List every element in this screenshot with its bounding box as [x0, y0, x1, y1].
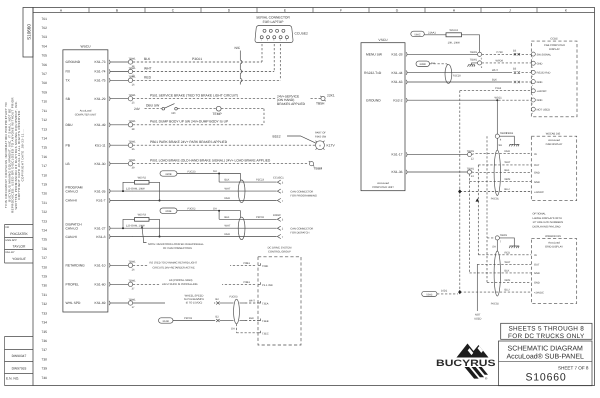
svg-text:726: 726	[41, 247, 47, 251]
svg-text:711: 711	[42, 109, 47, 113]
svg-text:DISPLAY: DISPLAY	[549, 48, 560, 51]
svg-text:RS232-TxD: RS232-TxD	[364, 71, 382, 75]
svg-text:712: 712	[41, 118, 47, 122]
svg-text:P3C01: P3C01	[192, 57, 202, 61]
svg-text:GND: GND	[534, 282, 540, 285]
grid display terminal TBW1 pin 7	[487, 136, 519, 251]
svg-text:708: 708	[41, 81, 47, 85]
svg-text:YOUSUF: YOUSUF	[12, 257, 26, 261]
wire BLU grid 24V with 16D1 feed	[422, 289, 532, 297]
svg-text:TBW1: TBW1	[128, 141, 136, 144]
svg-text:2: 2	[267, 39, 268, 42]
svg-text:737: 737	[41, 348, 47, 352]
svg-text:FOR DC TRUCKS ONLY: FOR DC TRUCKS ONLY	[508, 333, 585, 340]
row numbers 701-740	[41, 17, 47, 380]
svg-text:P738: P738	[497, 51, 504, 54]
svg-text:DISPLAYING PAYLOAD: DISPLAYING PAYLOAD	[533, 225, 561, 228]
wire PB park brake	[133, 140, 315, 145]
svg-text:728: 728	[41, 265, 47, 269]
svg-text:2: 2	[532, 57, 533, 60]
DC drive system control group	[258, 247, 301, 345]
svg-text:SH: SH	[431, 62, 435, 65]
note resistors	[141, 226, 204, 251]
svg-text:RED: RED	[505, 251, 511, 254]
connector CCUSC1	[273, 177, 317, 203]
document number boxes bottom left	[5, 337, 34, 386]
wire GRN grid GND	[487, 240, 531, 282]
svg-text:739: 739	[41, 367, 47, 371]
svg-text:NOTE: RESISTORS LOCATED IN BAC: NOTE: RESISTORS LOCATED IN BACKSHELL	[148, 243, 204, 246]
svg-text:P2C23: P2C23	[256, 179, 264, 182]
cable shield P6C01	[491, 150, 501, 200]
svg-text:KS1-28: KS1-28	[392, 53, 403, 57]
wire SH drain to T3EC	[231, 324, 258, 333]
svg-text:710: 710	[41, 100, 47, 104]
svg-text:TBW1: TBW1	[467, 168, 475, 171]
svg-text:2: 2	[532, 66, 533, 69]
svg-text:KS1-44: KS1-44	[392, 71, 403, 75]
Bucyrus logo	[436, 344, 496, 381]
svg-text:WHT: WHT	[505, 161, 511, 164]
svg-text:GND: GND	[537, 99, 543, 102]
cable shield CAN1	[238, 180, 245, 203]
wire BLU cab 24V	[458, 91, 531, 293]
svg-text:5: 5	[286, 39, 287, 42]
svg-text:COMPUTER UNIT: COMPUTER UNIT	[372, 186, 394, 189]
svg-text:56 PULSES/MPH: 56 PULSES/MPH	[184, 298, 204, 301]
serial connector CCUSE2	[255, 16, 308, 43]
svg-text:USED: USED	[474, 317, 481, 320]
svg-text:G: G	[396, 8, 399, 12]
svg-text:OUT: OUT	[534, 164, 540, 167]
svg-text:TBW1: TBW1	[467, 150, 475, 153]
svg-text:KS1-27: KS1-27	[95, 227, 106, 231]
resistor WS-R2 120 OHM	[122, 176, 161, 201]
svg-text:PROPEL: PROPEL	[66, 283, 80, 287]
cable shield P6C02	[491, 251, 501, 306]
wire RED CAN2 HI	[133, 233, 277, 237]
svg-text:720: 720	[41, 192, 47, 196]
svg-text:736: 736	[41, 339, 47, 343]
svg-text:(0 TO 15VDC): (0 TO 15VDC)	[186, 302, 203, 305]
svg-text:WS-R2: WS-R2	[138, 176, 147, 179]
CCBS cab computer display	[531, 38, 577, 117]
svg-text:738: 738	[41, 357, 47, 361]
svg-text:KS1-17: KS1-17	[392, 153, 403, 157]
svg-text:B2: B2	[216, 315, 220, 318]
resistor WS-R4 10K pullup	[446, 29, 480, 53]
svg-text:VSCU: VSCU	[378, 38, 388, 42]
svg-text:P601 DUMP BODY UP SW 24V+DUM: P601 DUMP BODY UP SW 24V+DUMP BODY IS UP	[150, 120, 229, 124]
svg-text:TBW1: TBW1	[506, 132, 514, 135]
svg-text:GRN: GRN	[505, 279, 511, 282]
svg-text:TBW1: TBW1	[128, 76, 136, 79]
svg-text:2: 2	[532, 75, 533, 78]
CCBS pins	[531, 52, 551, 115]
wire GROUND WD21	[407, 97, 531, 102]
svg-text:GRN: GRN	[505, 178, 511, 181]
svg-text:DBU SW: DBU SW	[146, 103, 160, 107]
svg-text:WHT: WHT	[249, 300, 255, 303]
wire label oval 620B	[160, 170, 241, 182]
svg-text:RED: RED	[225, 197, 231, 200]
svg-text:TBW1: TBW1	[470, 51, 478, 54]
wire 24VDC PJA2	[460, 87, 531, 91]
svg-text:SW SIGNAL: SW SIGNAL	[537, 53, 552, 56]
WSCU AccuLoad computer unit U1	[63, 45, 108, 313]
svg-text:BLK: BLK	[225, 216, 230, 219]
svg-text:BLK: BLK	[225, 179, 230, 182]
svg-text:T3EC: T3EC	[262, 333, 269, 336]
wire BLK RX line	[133, 44, 262, 62]
svg-text:CAN-HI: CAN-HI	[66, 199, 77, 203]
svg-text:CAN-LO: CAN-LO	[66, 190, 79, 194]
svg-text:TBW1: TBW1	[470, 59, 478, 62]
wire wheel speed WHT	[133, 293, 258, 305]
svg-text:10" HIGH LCD NUMBERS: 10" HIGH LCD NUMBERS	[533, 221, 564, 224]
wire label oval 612B	[159, 315, 259, 323]
WSCU pin labels	[66, 60, 106, 305]
VSCU AccuLoad computer unit U2	[361, 38, 405, 191]
svg-text:731: 731	[41, 293, 47, 297]
svg-text:P6C02: P6C02	[491, 303, 499, 306]
svg-text:639D: 639D	[420, 63, 426, 66]
svg-text:BLK: BLK	[249, 317, 254, 320]
svg-text:WHT: WHT	[144, 67, 152, 71]
svg-text:T3EB: T3EB	[262, 320, 269, 323]
svg-text:BLK: BLK	[144, 57, 151, 61]
wire SB service brake	[133, 94, 335, 107]
svg-text:FOR DISPATCH: FOR DISPATCH	[290, 231, 309, 234]
svg-text:RETARDING: RETARDING	[66, 264, 86, 268]
svg-text:KS1-73: KS1-73	[95, 60, 106, 64]
svg-text:SCHEMATIC DIAGRAM: SCHEMATIC DIAGRAM	[508, 346, 583, 353]
svg-text:WHL SPD: WHL SPD	[66, 301, 82, 305]
svg-text:725: 725	[41, 238, 47, 242]
svg-text:705: 705	[41, 54, 47, 58]
svg-text:RX: RX	[66, 70, 71, 74]
svg-text:21AA1: 21AA1	[428, 31, 436, 34]
svg-text:24V: 24V	[134, 107, 141, 111]
svg-text:TBW1: TBW1	[128, 159, 136, 162]
wire RED grid IN	[478, 251, 531, 255]
svg-text:CAN CONNECTOR: CAN CONNECTOR	[290, 190, 313, 193]
svg-text:GND: GND	[534, 181, 540, 184]
svg-text:730: 730	[41, 284, 47, 288]
wire BLK shield CAN1	[219, 179, 277, 183]
svg-text:KS2-2: KS2-2	[393, 98, 402, 102]
svg-text:2: 2	[532, 84, 533, 87]
TBW1 terminal circles	[128, 57, 136, 309]
svg-text:ENG APP: ENG APP	[6, 239, 18, 242]
svg-text:BLK: BLK	[505, 269, 510, 272]
svg-text:P8B1: P8B1	[244, 262, 251, 265]
svg-text:P2C03: P2C03	[230, 296, 238, 299]
svg-text:120 OHM, 1/4W: 120 OHM, 1/4W	[126, 187, 145, 190]
svg-text:AS (PROPEL SIGN): AS (PROPEL SIGN)	[169, 279, 193, 282]
svg-text:DC DRIVE SYSTEM: DC DRIVE SYSTEM	[268, 247, 292, 250]
svg-text:E.N. NO.: E.N. NO.	[6, 377, 19, 381]
svg-text:P801 LOAD BRAKE (OLD HAND BRA: P801 LOAD BRAKE (OLD HAND BRAKE SIGNAL) …	[150, 158, 271, 162]
wire WHT grid OUT to not used	[474, 198, 531, 320]
svg-text:10K, 1/4W: 10K, 1/4W	[448, 41, 461, 44]
svg-text:CCUSE2: CCUSE2	[295, 32, 309, 36]
WSCAB AccuLoad cab display	[506, 132, 577, 201]
svg-text:WSGRID DIS: WSGRID DIS	[545, 235, 561, 238]
svg-text:RS232-RxD: RS232-RxD	[537, 72, 551, 75]
svg-text:727: 727	[41, 256, 47, 260]
svg-text:KS1-30: KS1-30	[95, 162, 106, 166]
resistor WS-R3 120 OHM	[122, 213, 161, 237]
cable shield wheel speed	[234, 299, 240, 324]
svg-text:1: 1	[261, 39, 262, 42]
svg-text:N/C: N/C	[235, 46, 241, 50]
wire WHT CAN2 LO	[133, 225, 277, 229]
svg-text:2: 2	[532, 112, 533, 115]
svg-text:TBW1: TBW1	[128, 120, 136, 123]
column letters	[60, 8, 568, 13]
svg-text:RED: RED	[505, 150, 511, 153]
svg-text:BLU: BLU	[505, 289, 510, 292]
wire WHT CAN1 LO	[133, 188, 277, 192]
svg-text:22K1: 22K1	[327, 94, 335, 98]
node B1E2	[273, 134, 317, 143]
svg-text:TBW1: TBW1	[128, 261, 136, 264]
S10660 margin box	[23, 8, 33, 58]
svg-text:707: 707	[41, 72, 47, 76]
svg-text:CAN-HI: CAN-HI	[66, 235, 77, 239]
wire WHT cab OUT	[478, 161, 531, 255]
svg-text:713: 713	[41, 127, 47, 131]
svg-text:A: A	[319, 145, 321, 148]
svg-text:WHT: WHT	[225, 188, 231, 191]
svg-text:716: 716	[41, 155, 47, 159]
wire DBU dump body up	[133, 120, 264, 125]
svg-text:S10660: S10660	[27, 24, 32, 40]
svg-text:PJA2: PJA2	[495, 87, 502, 90]
svg-text:719: 719	[41, 183, 47, 187]
wire KS1-36	[407, 168, 531, 178]
svg-text:WHT: WHT	[505, 261, 511, 264]
svg-text:B3: B3	[513, 49, 517, 52]
svg-text:TBW1: TBW1	[128, 298, 136, 301]
svg-text:CCBS: CCBS	[550, 38, 557, 41]
svg-text:CAB DISPLAY: CAB DISPLAY	[546, 143, 563, 146]
svg-text:733: 733	[41, 311, 47, 315]
svg-text:718: 718	[41, 173, 47, 177]
svg-text:702: 702	[41, 26, 47, 30]
svg-text:WHT: WHT	[225, 225, 231, 228]
svg-text:AccuLoad: AccuLoad	[548, 241, 560, 244]
svg-text:REL BY: REL BY	[6, 251, 15, 254]
svg-text:GND: GND	[537, 81, 543, 84]
svg-text:BLK: BLK	[492, 79, 497, 82]
N/C stub	[235, 46, 243, 85]
wire GRN cab GND	[470, 174, 532, 182]
svg-text:DISSC: DISSC	[273, 214, 281, 217]
wire MENU SW to display	[407, 49, 531, 60]
svg-text:+24VDC: +24VDC	[534, 291, 544, 294]
svg-text:55A3: 55A3	[426, 293, 433, 296]
svg-text:KS1-60: KS1-60	[95, 283, 106, 287]
svg-text:WHEEL SPEED: WHEEL SPEED	[185, 294, 204, 297]
svg-text:SH: SH	[231, 328, 235, 331]
svg-text:BRAKES APPLIED: BRAKES APPLIED	[277, 102, 306, 106]
svg-text:P1-1 IND: P1-1 IND	[262, 284, 273, 287]
svg-text:735: 735	[41, 330, 47, 334]
wire label oval 603E	[160, 207, 241, 219]
svg-text:722: 722	[41, 210, 47, 214]
svg-text:KS1-75: KS1-75	[95, 79, 106, 83]
svg-text:703: 703	[41, 35, 47, 39]
svg-text:OUT: OUT	[534, 264, 540, 267]
svg-text:GND: GND	[534, 272, 540, 275]
svg-text:AccuLoad® SUB-PANEL: AccuLoad® SUB-PANEL	[506, 353, 584, 361]
svg-text:CAB COMPUTER: CAB COMPUTER	[544, 44, 565, 47]
svg-text:COPYRIGHT DATE .08-22-11....: COPYRIGHT DATE .08-22-11....	[21, 129, 25, 182]
svg-text:+24VDC: +24VDC	[537, 90, 547, 93]
connector DISSC	[273, 214, 313, 239]
svg-text:24V+TRUCK IS PROPELLING: 24V+TRUCK IS PROPELLING	[162, 283, 198, 286]
24V DBU switch S1	[134, 103, 216, 115]
svg-text:GROUND: GROUND	[366, 98, 381, 102]
svg-text:P3C02: P3C02	[188, 208, 196, 211]
svg-text:B3: B3	[513, 68, 517, 71]
svg-text:612B: 612B	[163, 320, 169, 323]
svg-text:KS1-8: KS1-8	[96, 235, 105, 239]
wire RS retarding	[133, 260, 257, 270]
svg-text:GROUND: GROUND	[66, 60, 81, 64]
svg-text:F: F	[340, 8, 342, 12]
svg-text:729: 729	[41, 275, 47, 279]
svg-text:TBW1: TBW1	[128, 280, 136, 283]
wire AS propel	[133, 277, 257, 286]
svg-text:706: 706	[41, 63, 47, 67]
svg-text:CCUSC1: CCUSC1	[273, 177, 284, 180]
WSCU pin arcs and stubs	[109, 60, 133, 305]
cable shield CAN2	[238, 217, 245, 240]
svg-text:CONTROL GROUP: CONTROL GROUP	[268, 251, 291, 254]
wire BLK grid GND	[470, 182, 532, 273]
svg-text:620B: 620B	[165, 173, 171, 176]
svg-text:732: 732	[41, 302, 47, 306]
svg-text:KS1-74: KS1-74	[95, 70, 106, 74]
wire LB load brake	[133, 158, 323, 170]
svg-text:WS-R4: WS-R4	[450, 29, 459, 32]
svg-text:WS-R3: WS-R3	[138, 213, 147, 216]
svg-text:OF CAN CONNECTORS: OF CAN CONNECTORS	[163, 247, 192, 250]
svg-text:P2C23: P2C23	[188, 170, 196, 173]
svg-text:AccuLoad: AccuLoad	[548, 139, 560, 142]
svg-text:DW97933: DW97933	[12, 366, 27, 370]
svg-text:DR: DR	[6, 226, 10, 229]
VSCU pin arcs	[406, 52, 407, 174]
svg-text:3: 3	[273, 39, 274, 42]
svg-text:P3K0 SW: P3K0 SW	[315, 135, 327, 138]
svg-text:704: 704	[41, 44, 47, 48]
svg-text:603E: 603E	[165, 210, 171, 213]
svg-text:TBW1: TBW1	[128, 94, 136, 97]
svg-text:OPTIONAL: OPTIONAL	[533, 213, 547, 216]
svg-text:SH: SH	[499, 144, 503, 147]
disclaimer rotated text	[4, 97, 25, 213]
svg-text:TBW1: TBW1	[128, 67, 136, 70]
cab display terminal TBW1 pin 4	[495, 100, 519, 150]
svg-text:TB5H: TB5H	[316, 101, 325, 105]
svg-text:KS1-7: KS1-7	[96, 199, 105, 203]
svg-text:WD21: WD21	[495, 97, 503, 100]
svg-text:KS1-49: KS1-49	[95, 123, 106, 127]
svg-text:P9B1: P9B1	[244, 281, 251, 284]
drawn/checked name boxes	[5, 225, 34, 264]
svg-text:740: 740	[41, 376, 47, 380]
svg-text:734: 734	[41, 321, 47, 325]
svg-text:P2C03: P2C03	[184, 317, 192, 320]
svg-text:KS1-10: KS1-10	[95, 264, 106, 268]
svg-text:RED: RED	[144, 75, 152, 79]
lamp A part of P3K0 SW	[315, 132, 336, 150]
svg-text:714: 714	[41, 137, 47, 141]
svg-text:566C: 566C	[414, 33, 420, 36]
svg-text:16D1: 16D1	[441, 289, 448, 292]
svg-text:WHT: WHT	[492, 69, 498, 72]
svg-text:P3C02: P3C02	[256, 216, 264, 219]
svg-text:WSCAB DIS: WSCAB DIS	[546, 132, 561, 135]
svg-text:+24VDC: +24VDC	[534, 191, 544, 194]
svg-text:AccuLoad: AccuLoad	[80, 110, 92, 113]
svg-text:T3EA: T3EA	[262, 303, 269, 306]
svg-text:NOT: NOT	[475, 313, 481, 316]
svg-text:2: 2	[532, 93, 533, 96]
svg-text:2: 2	[532, 103, 533, 106]
svg-text:715: 715	[41, 146, 47, 150]
svg-text:KS1-26: KS1-26	[95, 190, 106, 194]
svg-text:KS1-63: KS1-63	[392, 80, 403, 84]
svg-text:SH: SH	[213, 207, 217, 210]
WSGRID AccuLoad grid display	[531, 235, 576, 304]
svg-text:WPD9: WPD9	[496, 59, 504, 62]
wire WHT	[133, 44, 274, 72]
svg-text:AccuLoad: AccuLoad	[377, 182, 389, 185]
svg-text:CAN CONNECTOR: CAN CONNECTOR	[290, 227, 313, 230]
svg-text:TAYLOR: TAYLOR	[13, 245, 26, 249]
title block	[499, 341, 593, 386]
svg-text:IN: IN	[534, 153, 537, 156]
svg-text:B1E2: B1E2	[273, 134, 281, 138]
svg-text:COMPUTER UNIT: COMPUTER UNIT	[75, 114, 97, 117]
svg-text:BLK: BLK	[505, 169, 510, 172]
svg-text:709: 709	[41, 90, 47, 94]
svg-text:RED: RED	[225, 233, 231, 236]
svg-text:717: 717	[41, 164, 47, 168]
svg-text:724: 724	[41, 229, 47, 233]
svg-text:DBU: DBU	[66, 123, 74, 127]
svg-text:SH: SH	[492, 246, 496, 249]
svg-text:PART OF: PART OF	[315, 132, 326, 135]
svg-text:P2C20: P2C20	[453, 74, 461, 77]
sheets note box	[501, 323, 592, 340]
wire RED	[133, 44, 280, 80]
svg-text:TEMP: TEMP	[213, 112, 223, 116]
svg-text:T08K: T08K	[262, 265, 268, 268]
wire KS1-17	[407, 150, 531, 160]
svg-text:FOR LAPTOP: FOR LAPTOP	[263, 20, 285, 24]
wire WHT RS232	[407, 68, 531, 74]
svg-text:SHEET 7 OF 8: SHEET 7 OF 8	[558, 365, 589, 370]
wire BLK KS1-63	[407, 79, 531, 84]
svg-text:SH: SH	[213, 170, 217, 173]
svg-text:CAN-LO: CAN-LO	[66, 227, 79, 231]
